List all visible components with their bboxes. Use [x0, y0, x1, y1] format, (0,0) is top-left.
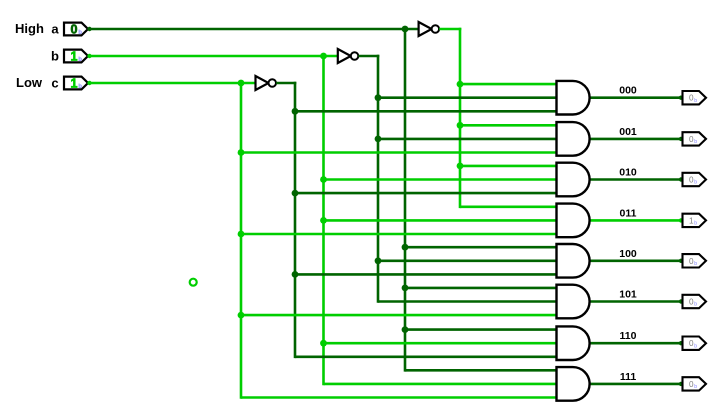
wire a-bar feed to AND gate 001 top input: [460, 124, 558, 127]
text label c: [51, 75, 58, 90]
text label 110: [620, 330, 637, 342]
port dot output pin 100: [679, 259, 683, 263]
text label a: [51, 21, 59, 36]
junction dot c-bar at gate 100 bottom feed: [292, 271, 299, 278]
svg-text:b: b: [78, 84, 82, 90]
port dot output pin 110: [679, 341, 683, 345]
wire a feed to AND gate 100 top input: [405, 246, 558, 249]
text label 100: [619, 248, 637, 260]
wire AND gate 000 output to pin: [589, 96, 683, 99]
wire AND gate 101 output to pin: [589, 300, 683, 303]
wire c-bar feed to AND gate 010 bottom input: [295, 192, 558, 195]
svg-text:b: b: [694, 384, 697, 390]
junction dot c at gate 011 bottom feed: [238, 231, 245, 238]
wire b-bar feed to AND gate 100 middle input: [378, 259, 558, 262]
wire U2 output to node b-bar corner: [359, 55, 380, 58]
wire U3 output to node a-bar corner: [439, 28, 461, 31]
svg-text:b: b: [694, 343, 697, 349]
port dot output pin 000: [679, 96, 683, 100]
svg-text:b: b: [694, 180, 697, 186]
wire c-bar feed to AND gate 100 bottom input: [295, 273, 558, 276]
output pin 111 (value 0): [683, 377, 707, 390]
wire node c vertical: [240, 82, 243, 399]
output pin 011 (value 1): [683, 214, 707, 227]
svg-text:Low: Low: [16, 75, 43, 90]
wire c feed to AND gate 011 bottom input: [241, 233, 558, 236]
wire b-bar feed to AND gate 101 middle input: [378, 300, 558, 303]
wire b feed to AND gate 011 middle input: [324, 219, 558, 222]
svg-text:001: 001: [619, 126, 637, 138]
wire AND gate 111 output to pin: [589, 383, 683, 386]
junction dot c-bar at gate 000 bottom feed: [292, 108, 299, 115]
text label 011: [620, 207, 637, 219]
junction dot a-bar at gate 001 top feed: [457, 122, 464, 129]
port dot pin c: [87, 81, 91, 85]
wire c feed to AND gate 101 bottom input: [241, 314, 558, 317]
wire AND gate 011 output to pin: [589, 219, 683, 222]
wire c-bar feed to AND gate 110 bottom input: [295, 355, 558, 358]
wire AND gate 100 output to pin: [589, 259, 683, 262]
output pin 010 (value 0): [683, 173, 707, 186]
wire a-bar feed to AND gate 010 top input: [460, 165, 558, 168]
svg-text:1: 1: [70, 77, 77, 91]
wire a-bar feed to AND gate 000 top input: [460, 83, 558, 86]
svg-text:c: c: [51, 75, 58, 90]
wire b-bar feed to AND gate 000 middle input: [378, 96, 558, 99]
port dot pin a: [87, 27, 91, 31]
wire node b vertical: [322, 55, 325, 386]
input pin a (value 0): [64, 23, 88, 37]
junction dot a-bar at gate 010 top feed: [457, 163, 464, 170]
svg-text:b: b: [694, 302, 697, 308]
wire c feed to AND gate 111 bottom input: [241, 396, 558, 399]
wire AND gate 110 output to pin: [589, 342, 683, 345]
port dot pin b: [87, 54, 91, 58]
text label Low: [16, 75, 43, 90]
junction dot a at gate 100 top feed: [402, 244, 409, 251]
output pin 100 (value 0): [683, 254, 707, 267]
svg-text:1: 1: [70, 50, 77, 64]
NOT gate U3 (inverts a): [419, 22, 440, 36]
wire c-bar feed to AND gate 000 bottom input: [295, 110, 558, 113]
wire node b-bar vertical: [377, 55, 380, 303]
wire U1 output to node c-bar corner: [276, 82, 296, 85]
svg-text:b: b: [78, 57, 82, 63]
wire AND gate 001 output to pin: [589, 138, 683, 141]
output pin 000 (value 0): [683, 91, 707, 104]
junction dot c at gate 101 bottom feed: [238, 312, 245, 319]
junction dot b at gate 110 middle feed: [320, 340, 327, 347]
wire b feed to AND gate 110 middle input: [324, 342, 558, 345]
output pin 001 (value 0): [683, 132, 707, 145]
junction dot b at gate 011 middle feed: [320, 217, 327, 224]
junction dot b-bar at gate 000 middle feed: [375, 94, 382, 101]
wire b-bar feed to AND gate 001 middle input: [378, 138, 558, 141]
svg-text:b: b: [78, 30, 82, 36]
svg-text:100: 100: [619, 248, 637, 260]
wire c: pin c to NOT gate U1 input: [88, 82, 256, 85]
junction dot node b on wire b: [320, 53, 327, 60]
junction dot node c on wire c: [238, 80, 245, 87]
text label High: [15, 21, 44, 36]
junction dot a at gate 101 top feed: [402, 285, 409, 292]
wire a feed to AND gate 111 top input: [405, 369, 558, 372]
svg-text:a: a: [51, 21, 59, 36]
svg-text:111: 111: [620, 371, 637, 383]
text label 111: [620, 371, 637, 383]
AND gate 100: [557, 244, 590, 278]
AND gate 001: [557, 122, 590, 156]
wire a: pin a to NOT gate U3 input: [88, 28, 419, 31]
junction dot b at gate 010 middle feed: [320, 176, 327, 183]
port dot output pin 001: [679, 137, 683, 141]
port dot output pin 010: [679, 177, 683, 181]
wire b feed to AND gate 010 middle input: [324, 178, 558, 181]
input pin b (value 1): [64, 50, 88, 64]
text label 001: [619, 126, 637, 138]
svg-text:b: b: [694, 261, 697, 267]
AND gate 101: [557, 285, 590, 319]
svg-text:010: 010: [619, 167, 637, 179]
svg-text:0: 0: [70, 23, 77, 37]
junction dot node a on wire a: [402, 26, 409, 33]
port dot output pin 101: [679, 299, 683, 303]
text label b: [51, 48, 59, 63]
wire AND gate 010 output to pin: [589, 178, 683, 181]
svg-text:011: 011: [620, 207, 637, 219]
AND gate 000: [557, 81, 590, 115]
AND gate 010: [557, 163, 590, 197]
NOT gate U1 (inverts c): [256, 76, 277, 90]
svg-text:b: b: [694, 221, 697, 227]
port dot output pin 111: [679, 382, 683, 386]
junction dot c at gate 001 bottom feed: [238, 149, 245, 156]
junction dot a at gate 110 top feed: [402, 326, 409, 333]
svg-text:High: High: [15, 21, 44, 36]
junction dot a-bar at gate 000 top feed: [457, 81, 464, 88]
wire b: pin b to NOT gate U2 input: [88, 55, 338, 58]
wire node c-bar vertical: [294, 82, 297, 358]
text label 000: [619, 85, 637, 97]
text label 101: [619, 289, 637, 301]
svg-text:101: 101: [619, 289, 637, 301]
junction dot b-bar at gate 100 middle feed: [375, 257, 382, 264]
junction dot b-bar at gate 001 middle feed: [375, 136, 382, 143]
AND gate 110: [557, 326, 590, 360]
wire a feed to AND gate 101 top input: [405, 287, 558, 290]
junction dot c-bar at gate 010 bottom feed: [292, 190, 299, 197]
port dot output pin 011: [679, 218, 683, 222]
svg-text:000: 000: [619, 85, 637, 97]
output pin 101 (value 0): [683, 295, 707, 308]
wire node a vertical: [404, 28, 407, 372]
NOT gate U2 (inverts b): [338, 49, 359, 63]
wire c feed to AND gate 001 bottom input: [241, 151, 558, 154]
svg-text:b: b: [694, 139, 697, 145]
wire a feed to AND gate 110 top input: [405, 328, 558, 331]
AND gate 011: [557, 204, 590, 238]
svg-text:b: b: [694, 98, 697, 104]
input pin c (value 1): [64, 77, 88, 91]
wire a-bar feed to AND gate 011 top input: [460, 206, 558, 209]
svg-text:110: 110: [620, 330, 637, 342]
text label 010: [619, 167, 637, 179]
wire node a-bar vertical: [459, 28, 462, 208]
AND gate 111: [557, 367, 590, 401]
svg-text:b: b: [51, 48, 59, 63]
output pin 110 (value 0): [683, 337, 707, 350]
unconnected wire-end ring: [190, 279, 197, 286]
wire b feed to AND gate 111 middle input: [324, 383, 558, 386]
